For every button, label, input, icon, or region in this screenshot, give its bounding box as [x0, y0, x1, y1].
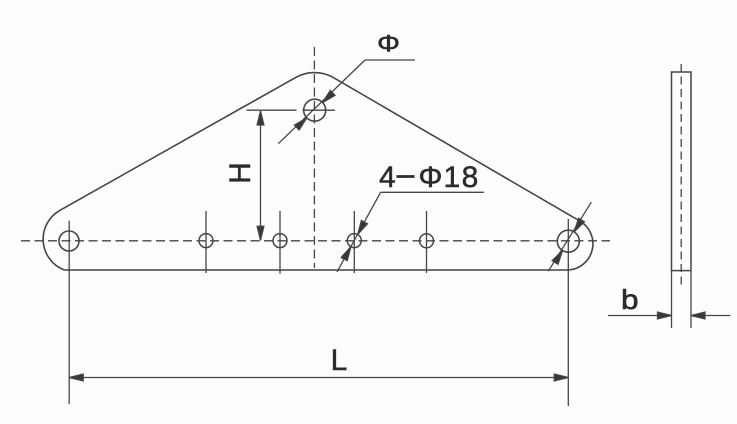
4-phi18 arrow lower	[341, 247, 351, 261]
b arrow pointing left	[691, 312, 705, 319]
phi arrow lower	[294, 118, 306, 130]
right hole vertical centerline + L extension line	[567, 219, 569, 406]
4-phi18 leader diagonal	[337, 192, 381, 272]
svg-text:Φ: Φ	[419, 161, 443, 194]
svg-text:4: 4	[379, 161, 396, 194]
side view extension line right	[690, 271, 692, 328]
small hole 3	[347, 234, 361, 248]
small hole 1 vertical centerline	[205, 211, 207, 273]
b arrow pointing right	[658, 312, 672, 319]
small hole 2 vertical centerline	[279, 211, 281, 274]
phi diameter line (top hole)	[278, 60, 365, 144]
b dimension line left	[608, 315, 672, 317]
b dimension line right	[691, 315, 731, 317]
right hole diameter line	[548, 202, 591, 271]
L dimension line	[69, 377, 568, 379]
left big hole	[59, 231, 79, 251]
right big hole	[557, 230, 579, 252]
side view plate rectangle	[672, 72, 692, 271]
right hole arrow lower	[552, 251, 562, 265]
small hole 3 vertical centerline	[353, 211, 355, 273]
right hole arrow upper	[574, 218, 584, 232]
vertical dashed centerline (apex)	[313, 47, 315, 268]
side view extension line left	[671, 271, 673, 328]
H arrow down	[257, 226, 264, 240]
small hole 2	[273, 234, 287, 248]
top hole	[304, 99, 326, 121]
phi arrow upper	[323, 90, 335, 102]
svg-text:L: L	[331, 344, 348, 377]
L arrow left	[69, 374, 83, 381]
H dimension line	[260, 111, 262, 240]
small hole 1	[199, 234, 213, 248]
left hole vertical centerline + L extension line	[68, 221, 70, 404]
svg-text:H: H	[224, 162, 257, 184]
horizontal dashed centerline	[21, 240, 610, 242]
svg-text:18: 18	[444, 161, 480, 194]
label 4-phi18 dash	[397, 175, 415, 178]
4-phi18 arrow upper	[358, 221, 368, 235]
4-phi18 leader horizontal	[381, 191, 484, 193]
top hole horizontal centerline / H reference line	[247, 109, 297, 111]
small hole 4 vertical centerline	[426, 211, 428, 273]
svg-text:b: b	[621, 284, 639, 315]
plate outline (front view)	[43, 73, 593, 270]
side view dashed centerline	[680, 64, 682, 287]
svg-text:Φ: Φ	[377, 31, 400, 58]
phi leader horizontal	[365, 59, 415, 61]
L arrow right	[554, 374, 568, 381]
small hole 4	[420, 234, 434, 248]
H arrow up	[257, 111, 264, 125]
